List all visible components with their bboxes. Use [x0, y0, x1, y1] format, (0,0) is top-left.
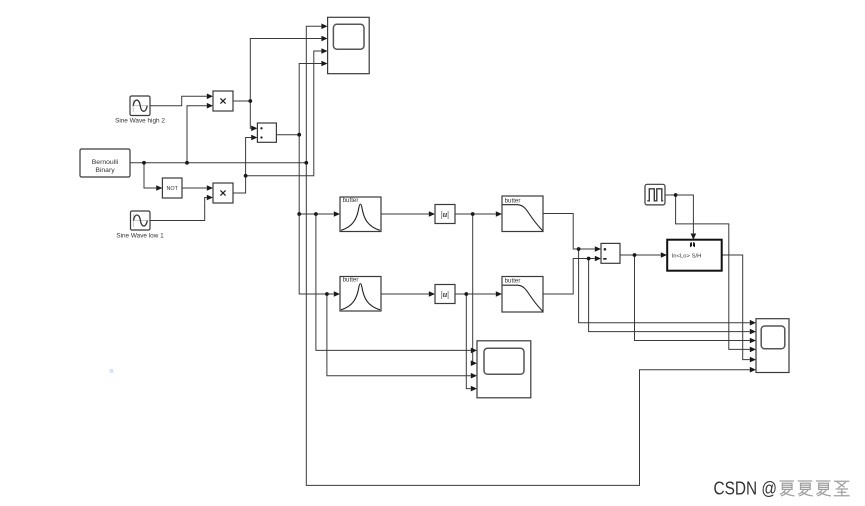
- wire Bernoulli up to Scope in1: [306, 26, 321, 163]
- wire Bernoulli to NOT: [144, 163, 156, 188]
- svg-text:butter: butter: [505, 277, 521, 284]
- wire lowpass1 tap down to Scope2 in1: [579, 249, 750, 323]
- wire Sum to Sample and Hold: [620, 254, 661, 256]
- wire Bernoulli output bus: [130, 162, 306, 164]
- wire Pulse tap down to Scope2 in4: [676, 195, 750, 349]
- wire butter lowpass 1 to Sum plus: [543, 214, 595, 250]
- svg-text:|u|: |u|: [441, 210, 449, 219]
- wire Abs2 to butter lowpass 2: [455, 293, 496, 295]
- wire Sum tap down to Scope2 in3: [635, 255, 750, 341]
- wire Abs1 tap down to Scope1 in2: [471, 214, 473, 363]
- junction Abs1 output tap: [471, 212, 475, 216]
- block butter lowpass 2: [502, 277, 543, 313]
- block butter lowpass 1: [502, 196, 543, 232]
- wire Sine Wave low 1 to Product2 in2: [150, 198, 207, 221]
- wire Bernoulli down along bottom to Scope2 in6: [306, 163, 750, 486]
- svg-text:butter: butter: [505, 197, 521, 204]
- wire butter lowpass 2 to Sum minus: [543, 259, 595, 295]
- junction lowpass1 output tap: [577, 247, 581, 251]
- wire lowpass2 tap down to Scope2 in2: [589, 259, 750, 332]
- wire NOT to Product2 in1: [182, 187, 207, 189]
- watermark CSDN: [714, 478, 778, 498]
- block NOT logical operator: [162, 178, 182, 198]
- svg-text:|u|: |u|: [441, 290, 449, 299]
- junction Bernoulli vertical branch: [304, 161, 308, 165]
- junction lowpass2 output tap: [587, 257, 591, 261]
- block Bernoulli Binary generator: [80, 149, 130, 177]
- wire butter bandpass 2 to Abs2: [381, 293, 429, 295]
- svg-text:CSDN @: CSDN @: [714, 478, 778, 498]
- wire FSK to butter bandpass 1: [299, 213, 334, 215]
- watermark CJK glyph xia 2: [798, 481, 813, 496]
- wire Bernoulli to Product1 in2: [187, 106, 207, 163]
- wire Pulse Generator to S/H trigger: [665, 195, 693, 233]
- svg-text:Sine Wave high 2: Sine Wave high 2: [115, 118, 165, 125]
- block Add (FSK sum): [257, 123, 276, 142]
- block butter bandpass 2: [340, 277, 381, 312]
- junction Product2 output branch: [244, 174, 248, 178]
- arrowheads input ports: [207, 94, 213, 100]
- watermark CJK glyph zhi: [834, 481, 850, 496]
- wire Product2 up to Scope in3: [246, 51, 322, 176]
- block Scope2 (right, 6 inputs): [756, 319, 789, 373]
- svg-text:NOT: NOT: [167, 186, 179, 192]
- watermark CJK glyph xia 1: [780, 481, 795, 496]
- block Scope1 (bottom middle, 4 inputs): [477, 341, 531, 398]
- svg-text:Bernoulli: Bernoulli: [92, 159, 119, 166]
- wire FSK tap down to Scope1 in3: [327, 294, 471, 376]
- wire Sine Wave high 2 to Product1 in1: [150, 96, 207, 105]
- block Pulse Generator: [645, 184, 665, 205]
- wire Abs1 to butter lowpass 1: [455, 213, 496, 215]
- block Scope (top, 4 inputs): [328, 17, 370, 73]
- block butter bandpass 1: [340, 197, 381, 232]
- wire Product1 up to Scope in2: [250, 39, 321, 102]
- junction Product1 output branch: [248, 99, 252, 103]
- svg-text:Binary: Binary: [95, 167, 115, 174]
- wire S/H output to Scope2 in5: [722, 255, 750, 360]
- junction FSK bandpass1 tap: [297, 212, 301, 216]
- wire Product1 to Add in1: [233, 101, 251, 128]
- watermark CJK glyph xia 3: [816, 481, 831, 496]
- junction FSK scope1 tap2: [325, 292, 329, 296]
- junction Pulse output tap: [674, 193, 678, 197]
- wire FSK tap down to Scope1 in1: [316, 214, 471, 350]
- block Sine Wave high 2: [115, 96, 165, 125]
- junction Bernoulli to Product1 branch: [185, 161, 189, 165]
- wire FSK up to Scope in4: [299, 64, 321, 135]
- junction Abs2 output tap: [464, 292, 468, 296]
- block Sum (plus minus): [601, 243, 620, 263]
- junction FSK scope1 tap1: [314, 212, 318, 216]
- svg-text:In<Lo> S/H: In<Lo> S/H: [672, 253, 702, 259]
- wire Add output FSK: [276, 134, 299, 136]
- junction Sum output tap: [633, 253, 637, 257]
- block Abs1 |u|: [435, 205, 455, 224]
- block Product1 (high): [213, 91, 233, 111]
- blue pixel artifact: [110, 369, 114, 373]
- block Sample and Hold S/H: [667, 240, 722, 271]
- wire FSK down to filters: [299, 135, 334, 294]
- wire Abs2 tap down to Scope1 in4: [466, 294, 471, 389]
- wire Product2 to Add in2: [233, 138, 251, 194]
- block Abs2 |u|: [435, 285, 455, 304]
- block Sine Wave low 1: [116, 211, 164, 240]
- block Product2 (low): [213, 183, 233, 203]
- svg-text:Sine Wave low 1: Sine Wave low 1: [116, 233, 164, 240]
- svg-text:butter: butter: [343, 197, 359, 204]
- wire butter bandpass 1 to Abs1: [381, 213, 429, 215]
- svg-text:butter: butter: [343, 277, 359, 284]
- junction Add output branch: [297, 133, 301, 137]
- junction Bernoulli to NOT branch: [142, 161, 146, 165]
